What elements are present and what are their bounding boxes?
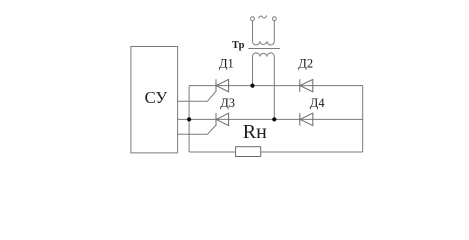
junction: secondary left lead on top row (250, 84, 254, 88)
resistor Rн body (236, 147, 261, 157)
wire left vertical node (188, 86, 190, 152)
wire bottom load, left segment (189, 151, 236, 153)
wire primary right lead (273, 21, 275, 42)
wire top row (cathode bus of Д1/Д2) (189, 85, 363, 87)
transformer primary terminal right (272, 17, 276, 21)
junction: secondary right lead on bottom row (272, 117, 276, 121)
svg-text:Д4: Д4 (310, 96, 326, 110)
svg-text:Тр: Тр (232, 40, 245, 51)
svg-text:СУ: СУ (145, 88, 168, 107)
svg-text:Д1: Д1 (219, 57, 234, 71)
control unit box СУ (131, 47, 178, 153)
wire secondary left lead (252, 57, 254, 86)
wire bottom load, right segment (261, 151, 363, 153)
svg-text:Д3: Д3 (220, 96, 235, 110)
wire gate of Д1 from СУ (178, 91, 216, 101)
AC source squiggle (259, 16, 267, 19)
wire right vertical (362, 86, 364, 152)
diode Д4 (300, 113, 313, 126)
transformer Тр secondary winding (253, 53, 275, 57)
wire secondary right lead (273, 57, 275, 120)
thyristor Д1 (216, 79, 229, 92)
transformer primary terminal left (251, 17, 255, 21)
svg-text:Rн: Rн (243, 121, 267, 143)
svg-text:Д2: Д2 (298, 57, 313, 71)
transformer Тр primary winding (253, 41, 275, 45)
junction: left vertical on bottom row (187, 117, 191, 121)
wire bottom row (bus of Д3/Д4) (178, 118, 363, 120)
wire primary left lead (252, 21, 254, 42)
diode Д2 (300, 79, 313, 92)
transformer core line (248, 48, 280, 50)
wire gate of Д3 from СУ (178, 125, 216, 134)
thyristor Д3 (216, 113, 229, 126)
